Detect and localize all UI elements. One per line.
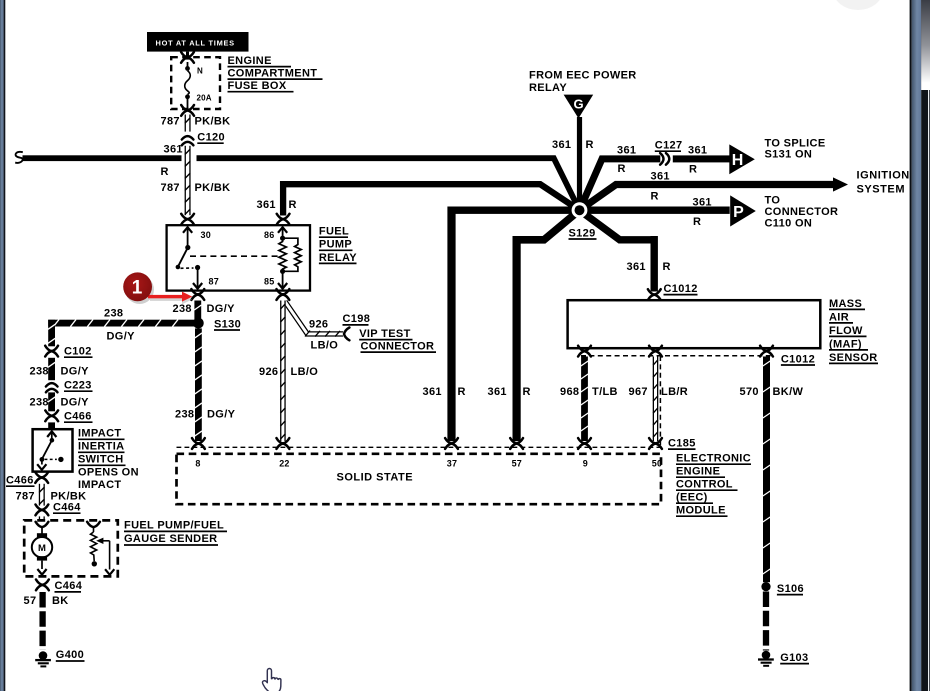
wire 361 R splice to ignition system xyxy=(580,185,834,211)
svg-text:P: P xyxy=(733,204,744,221)
svg-text:787: 787 xyxy=(161,116,180,128)
connector C120 xyxy=(182,136,194,139)
mouse hand cursor xyxy=(262,669,281,691)
inertia switch lower dot xyxy=(40,457,45,462)
sender wiper arrow xyxy=(96,538,103,544)
inertia ball dot xyxy=(58,457,63,462)
svg-text:C102: C102 xyxy=(64,346,92,358)
wire 361 R main horizontal left segment xyxy=(23,155,182,161)
motor M top cap xyxy=(37,533,47,537)
wire 967 LB/R MAF to EEC pin 50 xyxy=(653,357,659,442)
svg-text:MODULE: MODULE xyxy=(676,505,726,517)
svg-text:238: 238 xyxy=(30,366,49,378)
connector C464 xyxy=(36,505,49,516)
svg-text:50: 50 xyxy=(652,459,662,469)
svg-text:R: R xyxy=(693,216,701,228)
connector C466 below switch xyxy=(35,472,48,483)
svg-text:C127: C127 xyxy=(655,140,683,152)
svg-text:R: R xyxy=(523,386,531,398)
connector C466 xyxy=(45,410,58,421)
sender feed connector xyxy=(87,522,100,527)
pump feed connector xyxy=(36,522,49,527)
svg-text:TO: TO xyxy=(765,194,781,206)
wire 361 R splice to P connector and to EEC pin 37 xyxy=(452,207,730,214)
svg-text:T/LB: T/LB xyxy=(592,386,618,398)
svg-text:57: 57 xyxy=(512,459,522,469)
splice S130 dot xyxy=(193,318,204,329)
relay shunt resistor xyxy=(283,238,302,271)
svg-text:CONNECTOR: CONNECTOR xyxy=(765,206,839,218)
svg-text:87: 87 xyxy=(209,277,219,287)
wire 361 R main horizontal right segment to splice S129 xyxy=(197,158,580,210)
svg-text:570: 570 xyxy=(740,386,759,398)
connector at EEC pin 57 xyxy=(510,438,523,449)
connector C127 chevrons xyxy=(660,153,663,165)
svg-text:361: 361 xyxy=(423,386,442,398)
svg-text:PK/BK: PK/BK xyxy=(195,182,231,194)
svg-text:C466: C466 xyxy=(64,411,92,423)
inertia switch top arrow xyxy=(47,431,56,437)
motor lead xyxy=(41,527,43,534)
svg-text:S129: S129 xyxy=(569,227,596,239)
left window edge blue bar xyxy=(0,0,4,691)
svg-text:ENGINE: ENGINE xyxy=(676,466,720,478)
svg-text:LB/O: LB/O xyxy=(291,366,319,378)
svg-text:30: 30 xyxy=(201,230,211,240)
right scrollbar track highlight line xyxy=(928,0,929,691)
wire 787 PK/BK to fuel pump xyxy=(39,484,45,506)
svg-text:C110 ON: C110 ON xyxy=(765,218,813,230)
svg-text:S131 ON: S131 ON xyxy=(765,149,813,161)
svg-text:FROM EEC POWER: FROM EEC POWER xyxy=(529,70,637,82)
connector C185 dashed line xyxy=(177,446,662,448)
svg-text:INERTIA: INERTIA xyxy=(78,441,124,453)
svg-text:IGNITION: IGNITION xyxy=(857,169,910,181)
wire 361 R splice to C127 segment xyxy=(580,159,661,210)
svg-text:361: 361 xyxy=(257,199,276,211)
svg-text:C464: C464 xyxy=(53,502,81,514)
connector at EEC pin 9 xyxy=(578,438,591,449)
svg-text:H: H xyxy=(732,152,744,169)
svg-text:CONNECTOR: CONNECTOR xyxy=(361,340,435,352)
relay pin 30 arrow xyxy=(183,227,192,233)
connector at relay pin 30 xyxy=(181,214,194,225)
right scrollbar blue bar xyxy=(912,0,922,691)
svg-text:DG/Y: DG/Y xyxy=(107,330,136,342)
EEC module box (dashed) xyxy=(177,454,662,504)
fuse element xyxy=(187,62,189,67)
svg-text:G103: G103 xyxy=(780,652,808,664)
inertia switch arm xyxy=(42,440,52,459)
right scrollbar silver thumb gradient xyxy=(921,0,930,90)
relay pin 87 lead and arrow xyxy=(197,268,199,288)
svg-text:85: 85 xyxy=(264,277,274,287)
relay actuator dashed line xyxy=(190,255,279,257)
relay coil winding xyxy=(279,238,286,271)
relay pin 85 lead and arrow xyxy=(282,271,284,287)
svg-text:R: R xyxy=(618,163,626,175)
wire 968 T/LB MAF to EEC pin 9 xyxy=(581,357,588,442)
svg-text:R: R xyxy=(289,199,297,211)
relay switch dashed link xyxy=(181,267,194,269)
connector C1012 dashed line below MAF xyxy=(581,355,771,357)
svg-text:HOT AT ALL TIMES: HOT AT ALL TIMES xyxy=(156,39,235,48)
svg-text:R: R xyxy=(458,386,466,398)
svg-text:S106: S106 xyxy=(777,583,804,595)
wire stub hot box to fuse box xyxy=(186,52,189,60)
wire 926 LB/O branch to VIP test connector xyxy=(285,302,343,334)
fuel pump relay box xyxy=(167,225,310,290)
svg-text:AIR: AIR xyxy=(829,311,849,323)
svg-text:C185: C185 xyxy=(668,437,696,449)
connector C198 terminal xyxy=(344,328,349,341)
svg-text:SYSTEM: SYSTEM xyxy=(857,183,906,195)
wire 361 R splice to MAF sensor C1012 xyxy=(580,210,655,240)
svg-text:CONTROL: CONTROL xyxy=(676,479,733,491)
inertia switch bottom lead xyxy=(41,459,43,464)
svg-text:S130: S130 xyxy=(214,318,241,330)
connector C223 xyxy=(46,383,58,386)
svg-text:57: 57 xyxy=(24,595,37,607)
fuel pump box (dashed) xyxy=(24,520,118,576)
sender resistor xyxy=(91,532,97,561)
svg-text:LB/R: LB/R xyxy=(661,386,688,398)
svg-text:C466: C466 xyxy=(6,475,34,487)
svg-text:RELAY: RELAY xyxy=(529,82,567,94)
wire 57 BK segmented xyxy=(39,592,45,650)
svg-text:R: R xyxy=(689,164,697,176)
svg-text:86: 86 xyxy=(264,230,274,240)
svg-text:R: R xyxy=(161,166,169,178)
svg-text:SOLID STATE: SOLID STATE xyxy=(337,472,414,484)
wire 926 LB/O relay to EEC pin 22 xyxy=(280,301,286,442)
svg-text:968: 968 xyxy=(560,386,579,398)
svg-text:R: R xyxy=(586,139,594,151)
ground G400 symbol xyxy=(35,659,51,661)
svg-text:DG/Y: DG/Y xyxy=(207,409,236,421)
svg-text:LB/O: LB/O xyxy=(311,339,339,351)
svg-text:RELAY: RELAY xyxy=(319,252,357,264)
svg-text:VIP TEST: VIP TEST xyxy=(359,328,411,340)
inertia switch pivot dot xyxy=(50,438,55,443)
terminal H arrow to splice S131 xyxy=(729,144,755,174)
ignition wire arrowhead xyxy=(833,177,848,191)
svg-text:361: 361 xyxy=(627,261,646,273)
wire 361 R splice to relay pin 86 xyxy=(283,184,579,215)
hot at all times box xyxy=(147,32,249,52)
right edge dark sliver xyxy=(928,0,930,691)
svg-text:361: 361 xyxy=(693,197,712,209)
svg-text:37: 37 xyxy=(447,459,457,469)
wire BK S106 to G103 segmented xyxy=(763,592,769,651)
svg-text:IMPACT: IMPACT xyxy=(78,479,121,491)
svg-text:G: G xyxy=(573,97,583,112)
sender lead xyxy=(93,527,95,532)
svg-text:238: 238 xyxy=(173,303,192,315)
motor M circle xyxy=(32,537,52,557)
svg-text:1: 1 xyxy=(132,277,143,298)
svg-text:DG/Y: DG/Y xyxy=(207,303,236,315)
sender resistor end dot xyxy=(92,561,97,566)
svg-text:R: R xyxy=(651,191,659,203)
svg-text:22: 22 xyxy=(279,459,289,469)
connector at EEC pin 22 xyxy=(277,438,290,449)
splice S129 hub dot xyxy=(575,205,585,215)
wire 238 DG/Y into impact switch xyxy=(48,422,55,429)
svg-text:8: 8 xyxy=(195,459,200,469)
left window edge dark line xyxy=(4,0,6,691)
svg-text:FUEL: FUEL xyxy=(319,226,349,238)
ground G400 dot xyxy=(39,651,48,660)
svg-text:M: M xyxy=(38,543,46,554)
svg-text:BK: BK xyxy=(52,595,69,607)
sender wiper lead xyxy=(109,541,111,570)
svg-text:926: 926 xyxy=(259,366,278,378)
svg-text:BK/W: BK/W xyxy=(773,386,804,398)
connector at MAF pin for 570 xyxy=(760,346,773,357)
relay switch arm xyxy=(178,248,188,267)
callout balloon 1 xyxy=(123,272,152,301)
splice S106 dot xyxy=(761,582,770,591)
motor M bottom cap xyxy=(37,556,47,560)
connector at MAF pin for 968 xyxy=(578,346,591,357)
svg-text:IMPACT: IMPACT xyxy=(78,428,121,440)
svg-text:ELECTRONIC: ELECTRONIC xyxy=(676,453,751,465)
svg-text:361: 361 xyxy=(552,139,571,151)
svg-text:361: 361 xyxy=(488,386,507,398)
callout shadow xyxy=(125,275,192,304)
wire 238 DG/Y between C223 and C466 xyxy=(48,392,55,411)
relay pin 87 contact dot xyxy=(195,265,200,270)
inertia switch box xyxy=(33,429,73,471)
svg-text:C1012: C1012 xyxy=(664,283,698,295)
svg-text:SENSOR: SENSOR xyxy=(829,352,878,364)
MAF sensor box xyxy=(568,300,821,348)
motor bottom lead xyxy=(41,561,43,569)
svg-text:FLOW: FLOW xyxy=(829,325,863,337)
wire 361 R splice to EEC pin 57 xyxy=(517,210,580,240)
wire 570 BK/W MAF to S106 xyxy=(763,357,770,583)
wire 361 R vertical to EEC pin 57 xyxy=(513,236,521,441)
svg-text:238: 238 xyxy=(104,308,123,320)
engine compartment fuse box (dashed) xyxy=(171,57,220,109)
right content border dark line xyxy=(910,0,912,691)
wire 787 PK/BK lower segment xyxy=(185,146,191,215)
svg-text:C223: C223 xyxy=(64,380,92,392)
svg-text:ENGINE: ENGINE xyxy=(228,55,272,67)
svg-text:MASS: MASS xyxy=(829,298,862,310)
svg-text:926: 926 xyxy=(309,318,328,330)
svg-text:DG/Y: DG/Y xyxy=(61,397,90,409)
svg-text:9: 9 xyxy=(583,459,588,469)
wire 361 R vertical to MAF C1012 xyxy=(651,236,658,292)
svg-text:G400: G400 xyxy=(56,649,84,661)
wire 238 DG/Y S130 to left column xyxy=(48,320,194,327)
wire 238 DG/Y left column upper xyxy=(48,320,55,347)
connector C102 xyxy=(45,346,58,357)
svg-text:SWITCH: SWITCH xyxy=(78,454,123,466)
svg-text:R: R xyxy=(663,261,671,273)
svg-text:(MAF): (MAF) xyxy=(829,338,862,350)
svg-text:361: 361 xyxy=(651,170,670,182)
svg-text:N: N xyxy=(197,67,203,76)
svg-text:PUMP: PUMP xyxy=(319,239,352,251)
svg-text:361: 361 xyxy=(164,143,183,155)
svg-text:C120: C120 xyxy=(197,131,225,143)
relay coil top dot xyxy=(280,236,285,241)
wire 361 R from EEC power relay (vertical) xyxy=(577,117,582,210)
svg-text:238: 238 xyxy=(30,397,49,409)
svg-text:DG/Y: DG/Y xyxy=(61,366,90,378)
wire 238 DG/Y between C102 and C223 xyxy=(48,358,55,380)
svg-text:COMPARTMENT: COMPARTMENT xyxy=(228,68,318,80)
svg-text:OPENS ON: OPENS ON xyxy=(78,466,139,478)
ground G103 symbol xyxy=(758,658,774,660)
connector at EEC pin 37 xyxy=(445,438,458,449)
relay switch pivot dot xyxy=(185,245,190,250)
svg-text:TO SPLICE: TO SPLICE xyxy=(765,137,826,149)
svg-text:967: 967 xyxy=(629,386,648,398)
svg-text:GAUGE SENDER: GAUGE SENDER xyxy=(124,533,217,545)
svg-text:787: 787 xyxy=(16,491,35,503)
connector at MAF pin for 967 xyxy=(649,346,662,357)
connector C1012 at MAF top xyxy=(648,289,661,300)
ground G103 dot xyxy=(762,651,771,660)
right scrollbar dark track xyxy=(921,0,930,691)
terminal P arrow to connector C110 xyxy=(730,195,756,226)
svg-text:PK/BK: PK/BK xyxy=(195,116,231,128)
connector at EEC pin 50 xyxy=(649,438,662,449)
svg-text:FUSE BOX: FUSE BOX xyxy=(228,80,287,92)
wire stub into pump box xyxy=(39,516,45,520)
svg-text:C464: C464 xyxy=(55,580,83,592)
connector at EEC pin 8 xyxy=(192,438,205,449)
connector C464 below pump xyxy=(36,580,49,591)
svg-text:C1012: C1012 xyxy=(781,353,815,365)
inertia switch dashed link xyxy=(45,458,57,460)
connector at fuse box top xyxy=(181,52,194,63)
wire 787 PK/BK upper segment xyxy=(185,115,191,132)
connector at fuse box bottom xyxy=(181,105,194,116)
callout arrow xyxy=(148,295,183,298)
connector dashed drop to C185 xyxy=(659,356,661,447)
connector at relay pin 86 xyxy=(277,214,290,225)
svg-text:361: 361 xyxy=(617,145,636,157)
connector at relay pin 87 xyxy=(191,289,204,300)
wire continuation S hook xyxy=(15,152,23,163)
svg-text:361: 361 xyxy=(688,145,707,157)
wire 361 R vertical to EEC pin 37 xyxy=(447,207,455,442)
svg-text:FUEL PUMP/FUEL: FUEL PUMP/FUEL xyxy=(124,520,224,532)
svg-text:20A: 20A xyxy=(197,94,212,103)
svg-text:238: 238 xyxy=(175,409,194,421)
relay pin 86 arrow xyxy=(278,227,287,233)
svg-text:C198: C198 xyxy=(343,313,371,325)
connector at relay pin 85 xyxy=(277,289,290,300)
wire 238 DG/Y relay to S130 xyxy=(194,301,201,320)
faint watermark circle xyxy=(833,0,883,10)
relay coil bottom dot xyxy=(280,269,285,274)
wire 361 R C127 to H arrow xyxy=(673,155,730,162)
wire 238 DG/Y S130 to EEC pin 8 xyxy=(195,328,202,441)
svg-text:787: 787 xyxy=(161,182,180,194)
terminal G triangle from EEC power relay xyxy=(564,95,594,119)
svg-text:(EEC): (EEC) xyxy=(676,492,708,504)
splice S129 hub ring xyxy=(572,202,588,218)
